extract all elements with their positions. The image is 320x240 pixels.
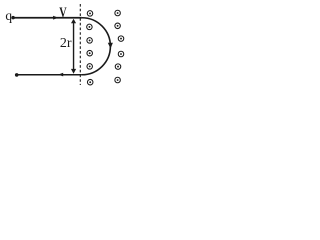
svg-text:q: q <box>5 8 12 23</box>
svg-text:2r: 2r <box>60 36 72 51</box>
svg-text:V: V <box>59 5 67 21</box>
